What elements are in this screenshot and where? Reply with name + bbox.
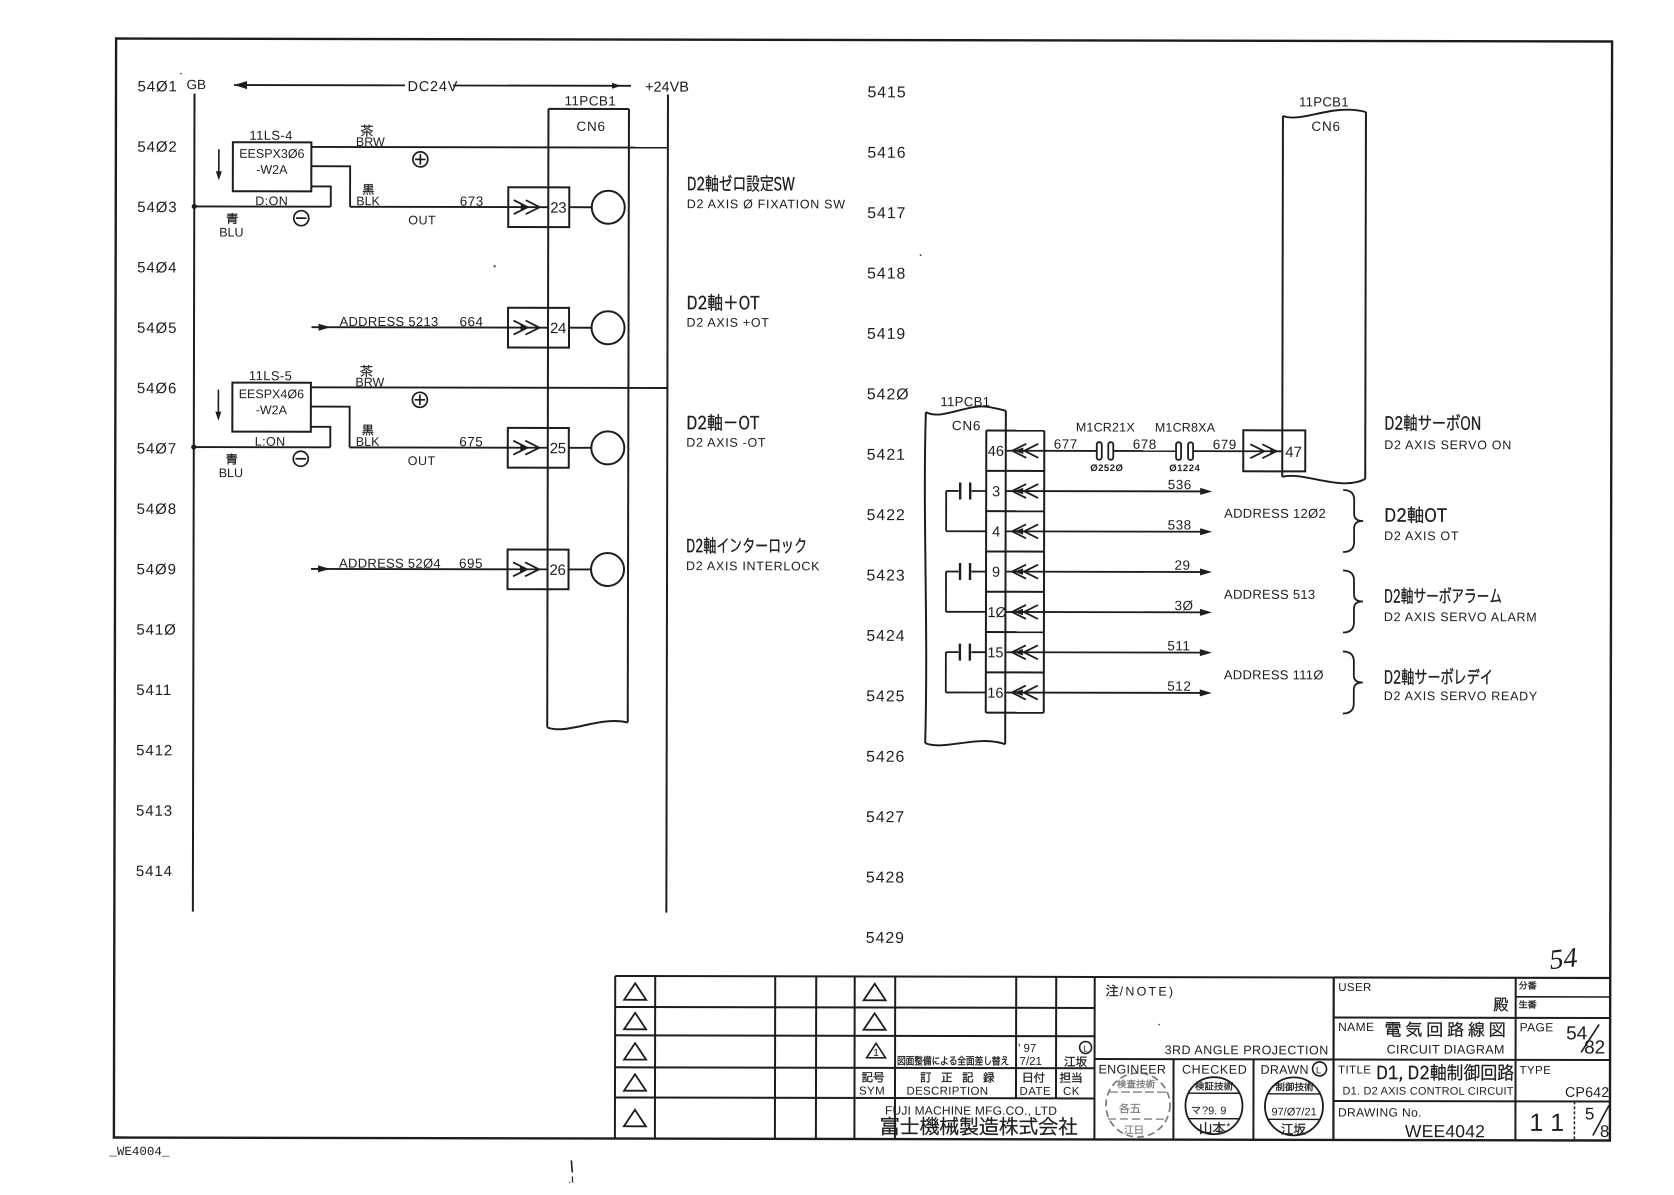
svg-text:D1. D2 AXIS CONTROL CIRCUIT: D1. D2 AXIS CONTROL CIRCUIT	[1342, 1085, 1513, 1097]
svg-text:D2 AXIS SERVO ALARM: D2 AXIS SERVO ALARM	[1384, 610, 1537, 624]
svg-text:15: 15	[987, 645, 1003, 661]
svg-text:54Ø6: 54Ø6	[137, 380, 177, 397]
svg-text:TYPE: TYPE	[1520, 1065, 1552, 1077]
svg-text:CK: CK	[1063, 1086, 1080, 1098]
svg-text:5412: 5412	[136, 742, 173, 759]
svg-text:542Ø: 542Ø	[867, 386, 910, 403]
svg-text:47: 47	[1285, 444, 1302, 461]
svg-text:5417: 5417	[867, 205, 906, 222]
svg-text:675: 675	[459, 434, 483, 449]
svg-text:-W2A: -W2A	[256, 403, 288, 417]
svg-text:_WE4004_: _WE4004_	[108, 1145, 170, 1159]
svg-text:ENGINEER: ENGINEER	[1099, 1062, 1167, 1076]
svg-text:PAGE: PAGE	[1520, 1020, 1554, 1034]
svg-text:5419: 5419	[867, 326, 906, 343]
svg-text:OUT: OUT	[408, 213, 436, 227]
svg-text:CHECKED: CHECKED	[1182, 1063, 1247, 1077]
svg-text:1: 1	[873, 1047, 879, 1059]
svg-text:678: 678	[1133, 437, 1157, 452]
svg-text:512: 512	[1167, 679, 1191, 694]
svg-text:1Ø: 1Ø	[987, 605, 1006, 621]
svg-text:29: 29	[1175, 558, 1191, 573]
svg-text:BLU: BLU	[219, 466, 243, 480]
svg-text:664: 664	[460, 314, 484, 329]
svg-text:CN6: CN6	[576, 119, 605, 134]
svg-text:16: 16	[987, 686, 1003, 702]
svg-text:ADDRESS 5213: ADDRESS 5213	[340, 314, 439, 329]
svg-text:DESCRIPTION: DESCRIPTION	[906, 1086, 988, 1098]
svg-text:54Ø2: 54Ø2	[137, 139, 177, 156]
svg-text:5422: 5422	[867, 507, 906, 524]
svg-text:54Ø9: 54Ø9	[137, 561, 177, 578]
svg-text:24: 24	[550, 320, 566, 337]
svg-text:BLU: BLU	[219, 226, 243, 240]
svg-text:5415: 5415	[867, 84, 906, 101]
svg-text:SYM: SYM	[859, 1085, 885, 1097]
svg-text:9: 9	[992, 565, 1000, 581]
svg-text:5418: 5418	[867, 266, 906, 283]
svg-text:5411: 5411	[136, 682, 172, 699]
svg-text:GB: GB	[186, 77, 206, 92]
svg-text:695: 695	[459, 556, 483, 571]
svg-text:D2 AXIS OT: D2 AXIS OT	[1384, 529, 1459, 543]
svg-text:46: 46	[988, 444, 1004, 460]
svg-text:CN6: CN6	[952, 418, 981, 433]
svg-text:*: *	[1226, 1122, 1230, 1133]
svg-text:11PCB1: 11PCB1	[940, 394, 990, 409]
svg-text:23: 23	[550, 200, 566, 217]
svg-text:DC24V: DC24V	[407, 79, 458, 95]
svg-text:DATE: DATE	[1019, 1086, 1050, 1098]
svg-text:538: 538	[1168, 517, 1192, 532]
svg-text:5425: 5425	[866, 688, 905, 705]
svg-text:USER: USER	[1338, 982, 1372, 994]
svg-text:11PCB1: 11PCB1	[564, 93, 616, 108]
svg-text:54Ø3: 54Ø3	[137, 199, 177, 216]
svg-text:3: 3	[992, 484, 1000, 500]
svg-text:BRW: BRW	[356, 135, 385, 149]
svg-text:TITLE: TITLE	[1338, 1064, 1371, 1076]
svg-text:5429: 5429	[866, 930, 905, 947]
svg-text:CN6: CN6	[1311, 119, 1340, 134]
svg-text:677: 677	[1054, 437, 1078, 452]
svg-text:D2 AXIS SERVO READY: D2 AXIS SERVO READY	[1384, 689, 1538, 703]
svg-text:5428: 5428	[866, 870, 905, 887]
svg-text:L: L	[1083, 1043, 1088, 1053]
svg-text:ADDRESS 111Ø: ADDRESS 111Ø	[1224, 667, 1324, 682]
svg-text:D2 AXIS +OT: D2 AXIS +OT	[687, 316, 770, 330]
svg-text:511: 511	[1167, 638, 1190, 653]
svg-text:11PCB1: 11PCB1	[1299, 94, 1349, 109]
svg-text:26: 26	[549, 562, 565, 579]
svg-text:CIRCUIT DIAGRAM: CIRCUIT DIAGRAM	[1387, 1043, 1505, 1057]
svg-text:EESPX4Ø6: EESPX4Ø6	[239, 387, 304, 401]
svg-text:Ø252Ø: Ø252Ø	[1090, 463, 1123, 474]
svg-text:-W2A: -W2A	[256, 163, 288, 177]
svg-text:D2 AXIS Ø FIXATION SW: D2 AXIS Ø FIXATION SW	[687, 197, 846, 211]
svg-text:5421: 5421	[867, 447, 906, 464]
svg-text:4: 4	[992, 525, 1000, 541]
svg-text:541Ø: 541Ø	[136, 622, 176, 639]
svg-text:/NOTE): /NOTE)	[1120, 985, 1176, 999]
svg-text:536: 536	[1168, 477, 1192, 492]
svg-text:5426: 5426	[866, 749, 905, 766]
svg-text:5416: 5416	[867, 145, 906, 162]
svg-text:3Ø: 3Ø	[1174, 598, 1193, 613]
svg-text:3RD ANGLE PROJECTION: 3RD ANGLE PROJECTION	[1165, 1043, 1329, 1057]
svg-text:5: 5	[1585, 1104, 1595, 1123]
svg-text:82: 82	[1584, 1037, 1605, 1058]
svg-text:M1CR8XA: M1CR8XA	[1155, 421, 1216, 435]
svg-text:54Ø4: 54Ø4	[137, 259, 177, 276]
svg-text:97/Ø7/21: 97/Ø7/21	[1271, 1106, 1316, 1118]
svg-text:NAME: NAME	[1338, 1020, 1374, 1034]
svg-text:673: 673	[460, 194, 484, 209]
svg-text:5413: 5413	[136, 803, 173, 820]
svg-text:8: 8	[1600, 1122, 1610, 1141]
svg-text:54Ø7: 54Ø7	[137, 441, 177, 458]
svg-text:7/21: 7/21	[1020, 1056, 1042, 1068]
svg-text:1 1: 1 1	[1529, 1109, 1564, 1137]
svg-text:EESPX3Ø6: EESPX3Ø6	[239, 147, 304, 161]
svg-text:ADDRESS 12Ø2: ADDRESS 12Ø2	[1224, 506, 1326, 521]
svg-text:WEE4042: WEE4042	[1405, 1121, 1485, 1141]
svg-text:5424: 5424	[866, 628, 905, 645]
svg-text:FUJI MACHINE MFG.CO., LTD: FUJI MACHINE MFG.CO., LTD	[885, 1104, 1057, 1118]
svg-text:54Ø5: 54Ø5	[137, 320, 177, 337]
svg-text:Ø1224: Ø1224	[1169, 463, 1200, 474]
svg-text:54: 54	[1548, 942, 1579, 976]
svg-text:5427: 5427	[866, 809, 905, 826]
svg-text:M1CR21X: M1CR21X	[1076, 420, 1136, 434]
svg-text:11LS-4: 11LS-4	[249, 128, 292, 143]
svg-text:5423: 5423	[867, 568, 906, 585]
svg-text:25: 25	[550, 440, 566, 457]
svg-text:?9. 9: ?9. 9	[1202, 1105, 1226, 1117]
svg-text:D2 AXIS SERVO ON: D2 AXIS SERVO ON	[1384, 438, 1512, 452]
svg-text:' 97: ' 97	[1018, 1043, 1036, 1055]
svg-text:DRAWN: DRAWN	[1261, 1063, 1309, 1077]
svg-text:DRAWING No.: DRAWING No.	[1338, 1105, 1422, 1119]
svg-text:11LS-5: 11LS-5	[249, 368, 292, 383]
svg-text:5414: 5414	[136, 863, 173, 880]
svg-text:679: 679	[1213, 437, 1237, 452]
svg-text:ADDRESS 513: ADDRESS 513	[1224, 587, 1315, 602]
svg-text:BRW: BRW	[355, 375, 384, 389]
svg-text:OUT: OUT	[408, 454, 436, 468]
svg-text:54Ø1: 54Ø1	[137, 78, 177, 95]
svg-text:54Ø8: 54Ø8	[137, 501, 177, 518]
svg-text:L: L	[1316, 1065, 1321, 1076]
svg-text:D2 AXIS -OT: D2 AXIS -OT	[686, 436, 766, 450]
svg-text:D2 AXIS INTERLOCK: D2 AXIS INTERLOCK	[686, 559, 820, 573]
svg-text:+24VB: +24VB	[645, 80, 689, 96]
svg-text:ADDRESS 52Ø4: ADDRESS 52Ø4	[339, 556, 441, 571]
svg-text:CP642: CP642	[1565, 1085, 1609, 1101]
